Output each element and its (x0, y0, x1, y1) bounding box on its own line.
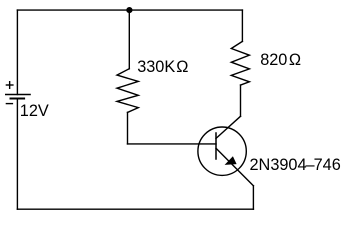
svg-text:820Ω: 820Ω (260, 51, 301, 69)
wire top rail corner down right rail to 820 resistor (241, 10, 243, 41)
wire top horizontal rail (17, 9, 242, 11)
wire left rail upper (top rail to battery +) (16, 10, 18, 94)
wire left rail lower (battery - to bottom rail) (16, 99, 18, 210)
svg-text:12V: 12V (20, 102, 49, 120)
resistor R1 330K zigzag body (117, 69, 138, 113)
svg-text:330KΩ: 330KΩ (137, 58, 188, 76)
transistor Q1 emitter arrowhead (225, 156, 237, 165)
wire junction down to 330K resistor top (128, 10, 130, 69)
battery V1 minus sign (6, 103, 12, 105)
transistor Q1 emitter diagonal lead (216, 148, 253, 186)
transistor Q1 base bar (215, 133, 217, 159)
resistor R2 820 zigzag body (231, 41, 249, 85)
wire 820 resistor bottom down to collector bend (240, 85, 242, 116)
battery V1 positive long plate (6, 94, 30, 96)
wire base lead horizontal to transistor (128, 143, 217, 145)
wire 330K resistor bottom down (127, 112, 129, 143)
wire bottom horizontal rail (17, 208, 253, 210)
transistor Q1 circle body (198, 127, 246, 175)
wire emitter down to bottom rail (252, 186, 254, 209)
battery V1 plus sign (6, 82, 12, 89)
transistor Q1 collector diagonal lead (216, 116, 241, 138)
node junction dot on top rail (126, 7, 132, 13)
svg-text:2N3904–746: 2N3904–746 (250, 156, 341, 174)
battery V1 negative short plate (11, 98, 25, 100)
